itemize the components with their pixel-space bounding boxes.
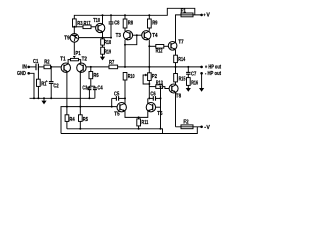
wire T3-T4 base link — [133, 34, 142, 36]
resistor R11 — [137, 117, 149, 128]
wire T1 emitter down — [66, 72, 68, 107]
svg-text:IN: IN — [22, 65, 27, 71]
tail line — [61, 107, 117, 134]
svg-text:V: V — [206, 13, 210, 19]
wire C5 stub to tail line — [111, 98, 113, 106]
resistor R4 — [65, 107, 75, 129]
svg-text:T10: T10 — [93, 18, 100, 24]
fuse F2 — [176, 120, 203, 129]
bottom return line — [61, 127, 197, 134]
wire C1 to R2 — [38, 66, 44, 68]
ground rail — [30, 97, 95, 99]
wire T10 emitter down — [102, 32, 104, 39]
ground below -HP — [199, 88, 204, 92]
wire T9 emitter down to P1 wiper — [73, 42, 75, 55]
node T9/T10 junction — [102, 37, 104, 39]
svg-text:F1: F1 — [181, 8, 186, 14]
svg-text:C8: C8 — [114, 21, 119, 27]
wire -HP to ground — [201, 73, 203, 88]
resistor R3 — [73, 19, 83, 27]
wire T6 base — [156, 106, 161, 108]
resistor R6 — [89, 67, 99, 79]
resistor R10 — [123, 73, 134, 81]
wire T7 emitter to R14 — [175, 50, 177, 55]
wire R2 to T1 base — [51, 66, 62, 68]
resistor R2 — [44, 60, 51, 69]
transistor T4 — [142, 31, 158, 41]
ground below R16 — [186, 88, 191, 92]
transistor T8 — [169, 84, 181, 99]
node R17 junction — [73, 26, 75, 28]
wire R16 to ground — [187, 85, 189, 88]
svg-text:R2: R2 — [44, 60, 49, 66]
svg-text:C4: C4 — [97, 86, 102, 92]
resistor R5 — [79, 107, 89, 129]
terminal +HP out — [200, 65, 221, 71]
capacitor C6 — [149, 92, 160, 101]
capacitor C8 — [109, 15, 120, 31]
svg-text:T1: T1 — [60, 57, 65, 63]
svg-text:T8: T8 — [176, 93, 181, 99]
wire top rail — [74, 8, 195, 19]
svg-text:P2: P2 — [152, 74, 157, 80]
svg-text:R7: R7 — [109, 60, 114, 66]
svg-text:R12: R12 — [156, 49, 163, 55]
wire T8 emitter down to F2 — [175, 92, 177, 127]
svg-text:T2: T2 — [82, 57, 87, 63]
svg-text:R3: R3 — [77, 21, 82, 27]
svg-text:V: V — [206, 125, 210, 131]
svg-text:F2: F2 — [183, 120, 188, 126]
wire T7 collector to fuse F1 — [176, 15, 182, 42]
resistor R19 — [101, 47, 111, 55]
wire R19 to ground — [102, 54, 104, 56]
svg-text:C7: C7 — [191, 71, 196, 77]
wire T1 collector to P1 — [67, 62, 69, 65]
svg-text:GND: GND — [17, 71, 26, 77]
svg-text:T9: T9 — [64, 35, 69, 41]
resistor R13 — [149, 81, 169, 89]
svg-text:R17: R17 — [84, 21, 91, 27]
wire IN to C1 — [29, 66, 36, 68]
svg-text:T6: T6 — [157, 111, 162, 117]
capacitor C7 — [186, 67, 196, 78]
svg-text:T3: T3 — [116, 33, 121, 39]
terminal IN — [22, 65, 30, 71]
svg-text:T4: T4 — [152, 33, 157, 39]
wire T6 base column — [160, 87, 162, 129]
resistor R1 — [37, 67, 47, 98]
svg-text:R16: R16 — [191, 81, 198, 87]
resistor R12 — [149, 45, 168, 55]
transistor T6 — [146, 103, 162, 118]
wire C8 bottom down — [110, 31, 112, 38]
resistor R18 — [101, 39, 111, 46]
wire P2 bus down to C6 line — [148, 81, 150, 99]
wire output line — [118, 66, 202, 68]
capacitor C5 — [112, 92, 125, 101]
svg-text:C2: C2 — [53, 84, 58, 90]
capacitor C3a — [82, 86, 95, 99]
transistor T1 — [60, 57, 70, 73]
wire T8 collector to R15 — [175, 82, 177, 85]
wire T10 collector to rail — [102, 15, 104, 24]
svg-text:T5: T5 — [114, 111, 119, 117]
transistor T9 — [64, 34, 78, 43]
svg-text:R10: R10 — [128, 74, 135, 80]
svg-text:R6: R6 — [93, 73, 98, 79]
svg-text:T7: T7 — [178, 39, 183, 45]
capacitor C2 — [46, 67, 59, 98]
svg-text:R19: R19 — [104, 49, 111, 55]
resistor R7 — [109, 60, 118, 69]
wire R15 leads — [175, 67, 177, 74]
resistor R9 — [148, 15, 158, 30]
wire R14 to output node — [175, 63, 177, 67]
transistor T2 — [77, 57, 87, 73]
svg-text:R14: R14 — [178, 57, 185, 63]
transistor T10 — [93, 18, 105, 33]
svg-text:R18: R18 — [104, 40, 111, 46]
transistor T7 — [168, 39, 183, 50]
resistor R17 — [74, 21, 96, 28]
fuse F1 — [181, 8, 202, 16]
svg-text:R15: R15 — [179, 76, 186, 82]
wire T2 collector to P1 — [80, 62, 82, 65]
ground below R19 — [100, 57, 105, 61]
svg-text:C3a: C3a — [82, 86, 89, 92]
terminal GND — [17, 71, 30, 77]
svg-text:R11: R11 — [141, 120, 148, 126]
svg-text:R9: R9 — [152, 20, 157, 26]
terminal -V — [200, 125, 210, 131]
capacitor C1 — [33, 59, 38, 70]
resistor R15 — [174, 74, 186, 83]
wire T5 collector up — [124, 102, 126, 105]
wire GND down to ground rail — [29, 73, 34, 98]
svg-text:- HP out: - HP out — [205, 71, 221, 77]
wire R3 to T9 — [73, 27, 75, 34]
svg-text:C1: C1 — [33, 59, 38, 65]
capacitor C4 — [93, 86, 103, 99]
resistor R8 — [123, 15, 133, 31]
bottom rail — [67, 129, 163, 134]
potentiometer P2 — [143, 73, 157, 84]
resistor R16 — [187, 78, 199, 87]
transistor T3 — [116, 31, 133, 41]
ground symbol on rail — [41, 97, 46, 104]
wire T5/T6 emitters to R11 — [125, 111, 148, 117]
wire R6 to C3a/C4 — [90, 79, 92, 87]
wire T9 collector right — [79, 37, 111, 39]
svg-text:C5: C5 — [114, 92, 119, 98]
wire T4 collector bus down — [148, 40, 150, 75]
svg-text:+ HP out: + HP out — [205, 65, 221, 71]
svg-text:P1: P1 — [75, 51, 80, 57]
wire T3 collector bus down — [124, 45, 126, 67]
svg-text:R4: R4 — [69, 117, 74, 123]
potentiometer P1 — [68, 51, 81, 63]
svg-text:R8: R8 — [128, 20, 133, 26]
svg-text:R5: R5 — [83, 117, 88, 123]
svg-text:R13: R13 — [156, 81, 163, 87]
transistor T5 — [114, 103, 126, 118]
resistor R14 — [174, 55, 186, 63]
wire R18 to R19 — [102, 45, 104, 47]
svg-text:C6: C6 — [150, 92, 155, 98]
wire T2 base to R7 — [86, 66, 109, 68]
wire T2 emitter down — [79, 72, 81, 107]
terminal -HP out — [200, 71, 221, 77]
wire T3 collector diode link — [125, 35, 137, 45]
wire T6 collector up — [147, 98, 149, 103]
terminal +V — [200, 12, 210, 18]
wire R10 down to C5 node — [124, 80, 126, 102]
